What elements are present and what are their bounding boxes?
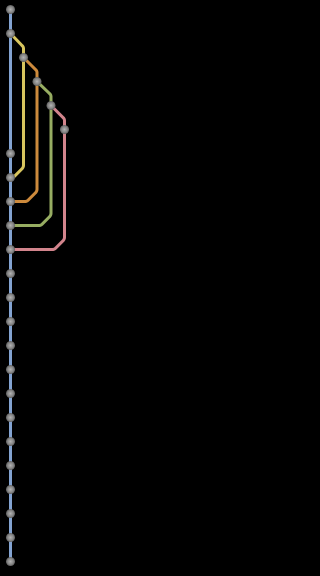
node commit16 (blue lane): [6, 365, 15, 374]
node commit22 (blue lane): [6, 509, 15, 518]
node commit1 (blue lane): [6, 5, 15, 14]
node commit20 (blue lane): [6, 461, 15, 470]
node commit21 (blue lane): [6, 485, 15, 494]
node commit23 (blue lane): [6, 533, 15, 542]
node commit10 (blue lane): [6, 221, 15, 230]
commit dots: [6, 5, 69, 566]
node commit3 (yellow lane): [19, 53, 28, 62]
node commit19 (blue lane): [6, 437, 15, 446]
node commit18 (blue lane): [6, 413, 15, 422]
node commit13 (blue lane): [6, 293, 15, 302]
node commit14 (blue lane): [6, 317, 15, 326]
wire blue main branch: [9, 10, 12, 562]
node commit4 (orange lane): [32, 77, 41, 86]
node commit15 (blue lane): [6, 341, 15, 350]
node commit11 (blue lane): [6, 245, 15, 254]
node commit24 (blue lane): [6, 557, 15, 566]
node commit12 (blue lane): [6, 269, 15, 278]
wire green branch: [11, 82, 52, 226]
node commit2 (blue lane): [6, 29, 15, 38]
node commit17 (blue lane): [6, 389, 15, 398]
node commit7 (blue lane): [6, 149, 15, 158]
node commit9 (blue lane): [6, 197, 15, 206]
wire pink branch: [11, 106, 65, 250]
wire yellow branch: [11, 34, 24, 178]
node commit8 (blue lane): [6, 173, 15, 182]
node commit5 (green lane): [46, 101, 55, 110]
node commit6 (pink lane): [60, 125, 69, 134]
wire orange branch: [11, 58, 38, 202]
